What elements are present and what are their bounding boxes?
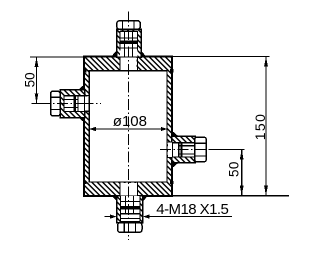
svg-text:ø108: ø108 — [113, 113, 147, 130]
svg-text:150: 150 — [252, 113, 268, 141]
svg-text:4-M18 X1.5: 4-M18 X1.5 — [156, 201, 228, 218]
svg-text:50: 50 — [22, 72, 37, 87]
svg-text:50: 50 — [227, 161, 242, 177]
